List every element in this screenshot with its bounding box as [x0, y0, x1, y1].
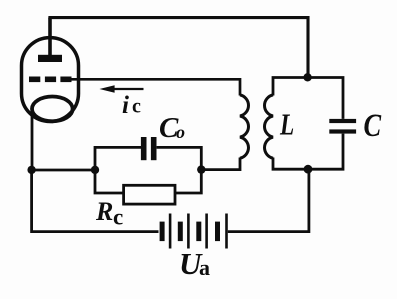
wire: battery to right branch — [228, 169, 309, 231]
wire: RC bottom branch right — [175, 170, 201, 193]
node: RC right — [197, 165, 205, 173]
resistor Rc — [124, 185, 175, 204]
tube V1 envelope — [22, 38, 79, 122]
wire: feedback coil bottom to RC node — [201, 158, 240, 170]
wire: tank bottom rail — [273, 134, 343, 170]
svg-text:R: R — [95, 197, 113, 226]
node: tank top — [303, 73, 311, 81]
wire: cathode node down to battery — [32, 170, 159, 232]
wire: RC bottom branch left — [95, 170, 124, 193]
svg-text:i: i — [122, 92, 129, 119]
svg-text:c: c — [132, 96, 141, 118]
wire: grid lead to feedback coil — [68, 79, 240, 95]
arrow: grid current ic — [108, 88, 144, 90]
wire: cathode lead down to node — [31, 112, 34, 170]
svg-text:L: L — [279, 107, 294, 141]
tank coil L — [265, 95, 273, 158]
feedback coil (left winding) — [240, 95, 248, 158]
capacitor Co plates — [141, 137, 157, 160]
node: cathode junction — [27, 166, 35, 174]
node: tank bottom — [304, 165, 313, 174]
svg-text:o: o — [176, 122, 185, 142]
svg-text:C: C — [364, 107, 383, 143]
wire: tank top rail — [273, 78, 343, 119]
wire: RC top branch (to capacitor Co) — [95, 147, 141, 170]
tube cathode — [32, 97, 73, 122]
wire: cathode node to RC left node — [32, 169, 95, 172]
capacitor C plates — [329, 119, 356, 134]
wire: top rail from anode to right branch — [48, 18, 52, 56]
svg-text:a: a — [199, 255, 210, 280]
battery Ua cells — [160, 214, 228, 249]
svg-text:c: c — [113, 205, 123, 230]
tube grid (dashed electrode) — [29, 77, 72, 83]
node: RC left — [91, 166, 99, 174]
tube anode plate — [38, 55, 62, 62]
